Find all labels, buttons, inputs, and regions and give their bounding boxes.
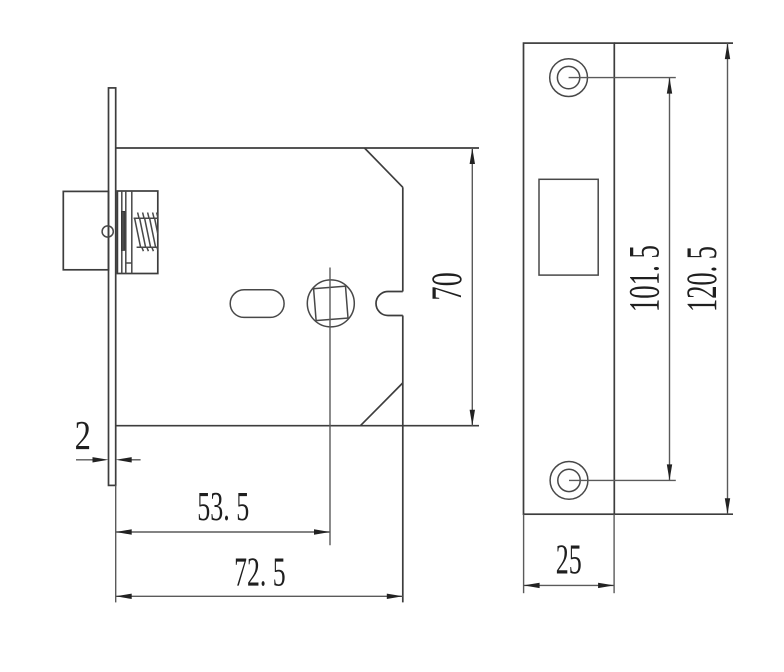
lock body right edge upper segment — [402, 187, 404, 291]
dimension text 120.5 — [679, 246, 726, 312]
dimension text 101.5 — [622, 245, 669, 312]
spindle center extension line — [329, 268, 331, 546]
svg-text:2: 2 — [75, 412, 91, 458]
spindle hub circle — [307, 280, 354, 327]
dimension 70 line with arrows — [470, 148, 475, 426]
plate right lower extension line — [613, 514, 615, 593]
dimension 53.5 line with arrows — [116, 529, 330, 534]
bottom screw hole — [550, 462, 588, 500]
latch bolt — [63, 191, 108, 269]
right edge notch cutout — [376, 292, 403, 316]
strike plate front view outline — [524, 43, 615, 514]
spring coil ticks above rail — [138, 213, 158, 219]
top screw extension line — [569, 77, 676, 79]
lock body bottom edge with extension — [116, 425, 479, 427]
dimension text 53.5 — [197, 483, 249, 529]
extension line below faceplate bar — [115, 485, 117, 602]
dimension text 72.5 — [234, 548, 286, 594]
dimension text 70 — [424, 272, 471, 300]
plate left lower extension line — [523, 514, 525, 593]
latch housing box — [117, 191, 157, 274]
spring top rail — [134, 217, 158, 219]
dimension 72.5 line with arrows — [116, 594, 403, 599]
spindle square hole — [314, 286, 348, 320]
lock body top chamfer — [365, 148, 403, 187]
bottom screw extension line — [569, 479, 676, 481]
svg-text:120. 5: 120. 5 — [679, 246, 726, 312]
top screw hole — [550, 59, 588, 97]
lock body bottom chamfer — [360, 383, 402, 426]
plate top extension line — [614, 42, 733, 44]
latch housing inner plate line 3 — [131, 191, 133, 274]
svg-text:53. 5: 53. 5 — [197, 483, 249, 529]
plate bottom extension line — [614, 513, 733, 515]
dimension 2 arrows — [76, 457, 141, 462]
lock body right edge lower segment and 72.5 extension line — [402, 316, 404, 603]
svg-text:101. 5: 101. 5 — [622, 245, 669, 312]
faceplate side view bar — [109, 88, 116, 486]
oval slot hole — [230, 290, 284, 318]
dimension 101.5 line with arrows — [667, 78, 672, 481]
latch housing inner plate line 2 — [125, 191, 127, 274]
latch housing inner plate line 1 — [121, 191, 123, 274]
spring coil ticks below rail — [142, 247, 158, 251]
svg-text:72. 5: 72. 5 — [234, 548, 286, 594]
strike plate latch hole — [539, 179, 598, 275]
latch guide dark strip — [121, 211, 125, 250]
dimension 25 line with arrows — [524, 583, 615, 588]
svg-text:25: 25 — [556, 538, 582, 584]
lock body top edge with extension — [116, 147, 479, 149]
spring bottom rail — [137, 246, 158, 248]
dimension text 2 — [75, 412, 91, 458]
svg-text:70: 70 — [424, 272, 471, 300]
dimension 120.5 line with arrows — [725, 43, 730, 514]
dimension text 25 — [556, 538, 582, 584]
latch housing step tick — [126, 262, 132, 264]
latch bolt pin circle — [102, 226, 113, 237]
spring coil diagonals — [135, 218, 158, 247]
